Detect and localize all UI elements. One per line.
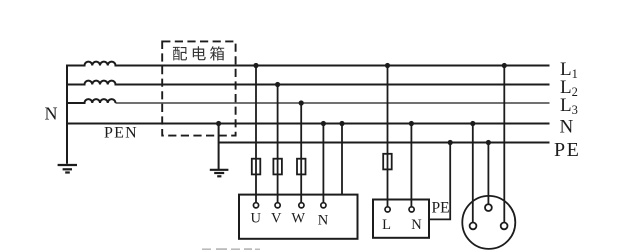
terminal L [385, 207, 390, 212]
svg-text:PEN: PEN [104, 125, 138, 142]
svg-text:PE: PE [554, 139, 580, 161]
wire PE drop to socket [487, 143, 489, 205]
junction L1-FU1 [253, 63, 258, 68]
transformer winding L3 [67, 99, 116, 103]
svg-text:W: W [291, 211, 305, 227]
junction N-enclosure [339, 121, 344, 126]
svg-text:V: V [271, 211, 282, 227]
socket pin N [470, 223, 477, 230]
svg-text:N: N [45, 104, 58, 124]
junction N-socket [470, 121, 475, 126]
ground electrode at distribution box [210, 170, 229, 177]
svg-text:N: N [560, 117, 574, 138]
wire L1 drop to fuse FU4 [387, 66, 389, 207]
wire N drop to socket [472, 124, 474, 223]
fuse FU1 [252, 159, 260, 175]
svg-text:U: U [251, 211, 262, 227]
ground electrode at source [58, 165, 77, 173]
wire L3 [116, 102, 550, 104]
junction N-load2 [409, 121, 414, 126]
wire L3 drop to fuse FU3 [300, 103, 302, 203]
socket pin PE [485, 204, 492, 211]
svg-text:N: N [411, 217, 422, 233]
terminal U [253, 203, 258, 208]
wire PE [219, 142, 550, 144]
cropped caption below load box [202, 248, 260, 250]
distribution box enclosure (dashed) [162, 41, 235, 135]
socket pin L [501, 223, 508, 230]
junction N-load1 [321, 121, 326, 126]
wire PE drop to single-phase load [429, 143, 450, 220]
fuse FU2 [273, 159, 282, 175]
junction PE-load2 [448, 140, 453, 145]
junction PE-socket [486, 140, 491, 145]
wire N (PEN then N) [67, 123, 550, 125]
terminal N [321, 203, 326, 208]
junction L1-FU4 [385, 63, 390, 68]
svg-text:PE: PE [432, 200, 450, 217]
transformer winding and wire L2 [67, 81, 550, 85]
socket outlet circle [462, 196, 515, 249]
junction PEN split [216, 121, 221, 126]
junction L1-socket [502, 63, 507, 68]
junction L3-FU3 [299, 100, 304, 105]
terminal V [275, 203, 280, 208]
wire: PEN earthing drop at distribution box [218, 124, 220, 170]
single-phase load box [373, 200, 429, 238]
junction L2-FU2 [275, 82, 280, 87]
fuse FU3 [297, 159, 306, 175]
transformer winding and wire L1 [67, 62, 550, 66]
fuse FU4 [383, 154, 392, 170]
wire L2 drop to fuse FU2 [277, 85, 279, 203]
svg-text:L: L [382, 217, 391, 233]
wire L1 drop to fuse FU1 [255, 66, 257, 203]
wire L1 drop to socket [503, 66, 505, 223]
wire N drop to motor load enclosure [341, 124, 343, 195]
svg-text:N: N [318, 213, 329, 229]
terminal N (single-phase) [409, 207, 414, 212]
wire N drop to motor load terminal N [322, 124, 324, 203]
three-phase load box [239, 195, 358, 239]
wire: neutral-point bus at transformer [66, 65, 68, 164]
terminal W [299, 203, 304, 208]
wire N drop to single-phase load terminal N [410, 124, 412, 207]
label 配电箱 (distribution box) [173, 46, 224, 60]
